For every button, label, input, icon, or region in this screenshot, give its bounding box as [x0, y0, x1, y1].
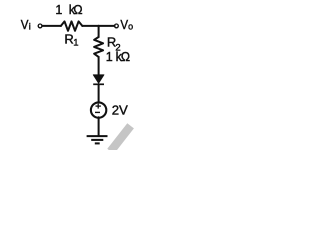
- wire: junction down to R2: [98, 26, 100, 37]
- ground: [87, 136, 108, 143]
- wire: source to ground: [98, 117, 100, 136]
- svg-text:2V: 2V: [112, 102, 128, 117]
- diode: [93, 75, 104, 84]
- svg-text:1: 1: [55, 3, 62, 17]
- svg-text:o: o: [128, 22, 133, 32]
- terminal Vi: [38, 24, 42, 28]
- resistor R2: [94, 37, 103, 57]
- svg-text:V: V: [21, 17, 29, 32]
- minus sign of source: [95, 111, 100, 113]
- voltage source 2V: [91, 102, 106, 117]
- wire: diode to source: [98, 84, 100, 103]
- svg-text:Ω: Ω: [73, 3, 82, 17]
- terminal Vo: [115, 24, 119, 28]
- resistor R1: [61, 21, 82, 30]
- wire: R2 to diode: [98, 57, 100, 75]
- wire: R1 to Vo terminal (through junction node): [82, 25, 114, 27]
- gray watermark stripe: [107, 123, 134, 154]
- svg-text:1: 1: [106, 50, 113, 64]
- svg-text:i: i: [29, 22, 31, 32]
- plus sign of source: [96, 105, 101, 107]
- svg-text:Ω: Ω: [121, 50, 130, 64]
- wire: Vi terminal to R1: [42, 25, 61, 27]
- svg-text:1: 1: [73, 38, 78, 49]
